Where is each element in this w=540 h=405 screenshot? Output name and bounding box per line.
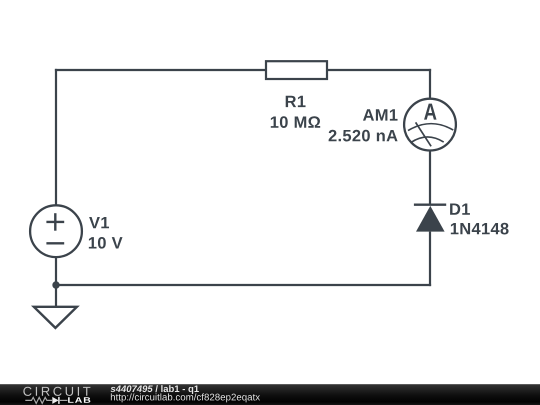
wire top-right corner down to AM1	[429, 69, 431, 100]
wire AM1 to D1	[429, 150, 431, 205]
wire top-left horizontal to R1	[55, 69, 266, 71]
value 2.520 nA	[329, 130, 398, 142]
wire V1 bottom to junction	[55, 257, 57, 286]
label AM1	[363, 109, 398, 120]
voltage source V1	[30, 205, 82, 257]
footer bar	[0, 384, 540, 405]
CircuitLab logo	[23, 387, 90, 404]
value 1N4148	[451, 223, 509, 235]
footer url	[111, 393, 260, 402]
label D1	[450, 203, 470, 214]
resistor R1	[266, 61, 327, 79]
wire junction to ground	[55, 285, 57, 307]
footer title	[111, 385, 199, 394]
value 10 MΩ	[271, 116, 320, 128]
label R1	[286, 96, 306, 107]
wire bottom horizontal	[56, 284, 431, 286]
label V1	[89, 217, 109, 228]
diode D1	[414, 205, 446, 232]
node junction	[52, 281, 59, 288]
wire V1 top to corner (left vertical)	[55, 69, 57, 206]
ammeter AM1	[404, 99, 456, 151]
wire D1 to bottom-right corner	[429, 232, 431, 287]
ground	[34, 307, 77, 328]
value 10 V	[89, 237, 123, 249]
wire R1 to top-right corner	[327, 69, 431, 71]
